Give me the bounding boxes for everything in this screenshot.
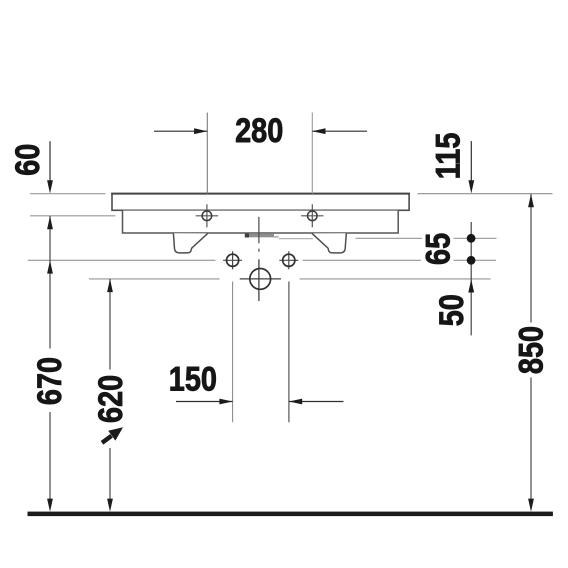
dimension 115 arrow bbox=[468, 141, 474, 193]
svg-text:150: 150 bbox=[169, 359, 217, 398]
left side hole circle bbox=[223, 251, 242, 269]
svg-text:50: 50 bbox=[432, 294, 471, 326]
svg-text:620: 620 bbox=[91, 375, 130, 423]
dimension 150 left arrow bbox=[176, 399, 233, 405]
drain hole circle bbox=[240, 269, 281, 290]
adjustable height arrow symbol bbox=[102, 429, 121, 443]
washbasin top slab bbox=[111, 194, 410, 211]
dimension 280 right arrow bbox=[312, 128, 367, 134]
dimension 280 right extension line bbox=[311, 113, 313, 194]
right side hole circle bbox=[279, 251, 298, 269]
svg-text:280: 280 bbox=[235, 111, 283, 150]
washbasin body bbox=[123, 211, 399, 233]
dimension 60 lower arrow / 670 line bbox=[47, 216, 53, 512]
dimension 150 right extension line bbox=[288, 282, 290, 423]
dimension 280 left extension line bbox=[206, 113, 208, 194]
drain center level reference line bbox=[89, 278, 491, 280]
dimension 850 line bbox=[528, 194, 534, 512]
svg-text:65: 65 bbox=[418, 233, 457, 265]
top surface reference line (right extension) bbox=[418, 193, 553, 195]
svg-text:670: 670 bbox=[30, 357, 69, 405]
right dimension chain line with dots (65 / 50) bbox=[467, 222, 476, 335]
svg-text:115: 115 bbox=[428, 133, 467, 180]
dimension 150 right arrow bbox=[289, 399, 344, 405]
dimension 620 line bbox=[107, 279, 113, 512]
left mounting bracket bbox=[173, 233, 207, 253]
svg-text:850: 850 bbox=[511, 326, 550, 374]
right fixing hole cross bbox=[301, 204, 323, 227]
left fixing hole cross bbox=[196, 204, 218, 227]
dimension 150 left extension line bbox=[232, 282, 234, 423]
side holes level reference line bbox=[28, 259, 496, 261]
vertical centerline of drain bbox=[258, 217, 260, 301]
drain fitting grey strip bbox=[245, 234, 279, 238]
dimension 60 upper arrow bbox=[47, 141, 53, 193]
floor line bbox=[28, 512, 553, 516]
svg-text:60: 60 bbox=[8, 144, 47, 176]
top surface reference line (left stub) bbox=[30, 193, 106, 195]
dimension 280 left arrow bbox=[154, 128, 207, 134]
fixing hole level reference line (left stub) bbox=[30, 215, 116, 217]
right mounting bracket bbox=[312, 233, 346, 253]
mounting rail reference line bbox=[279, 237, 497, 239]
